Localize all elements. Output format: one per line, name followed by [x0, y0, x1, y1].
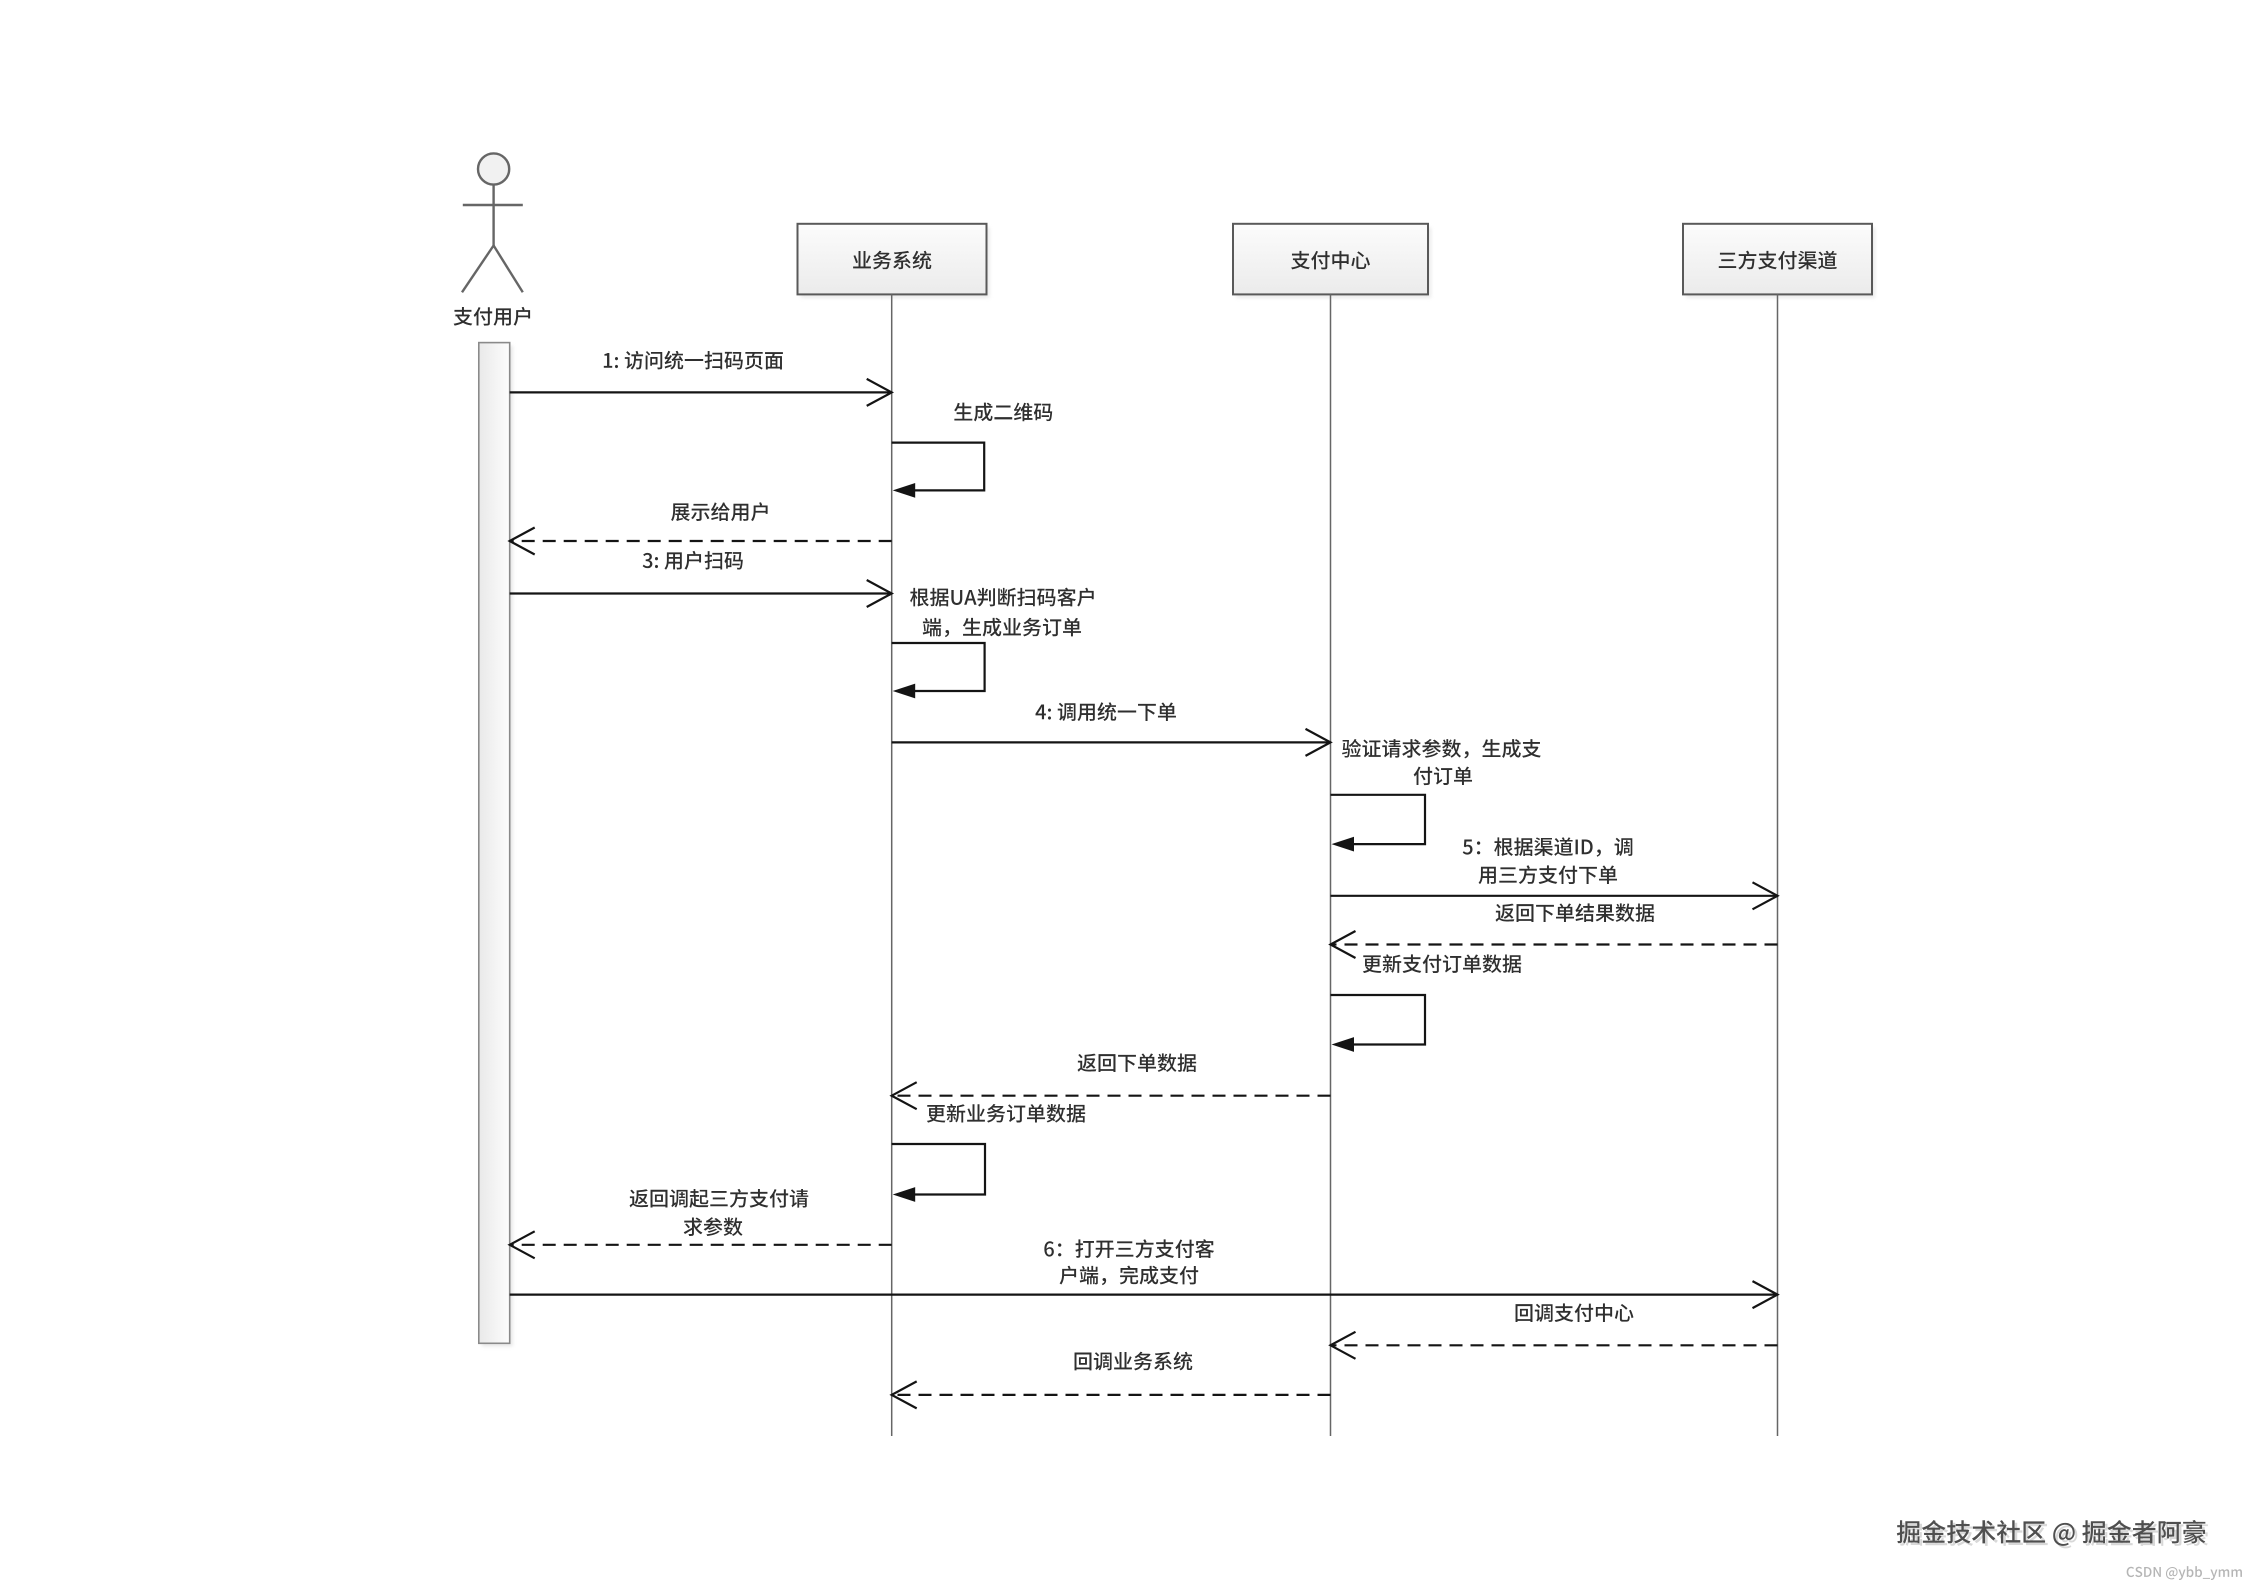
- label: 返回下单数据: [1078, 1053, 1197, 1072]
- actor label: 支付用户: [454, 307, 530, 326]
- self message loop: 根据UA判断扫码客户端，生成业务订单: [892, 643, 985, 698]
- return message (dashed): 展示给用户: [510, 528, 892, 555]
- label: 返回下单结果数据: [1496, 903, 1655, 922]
- self message loop: 更新支付订单数据: [1331, 995, 1426, 1052]
- return message (dashed): 回调支付中心: [1331, 1332, 1778, 1359]
- box label: 支付中心: [1291, 251, 1370, 270]
- label: 回调业务系统: [1075, 1352, 1193, 1371]
- participant box: 业务系统 (business system): [798, 224, 990, 298]
- return message (dashed): 返回调起三方支付请求参数: [510, 1231, 892, 1258]
- label: 更新支付订单数据: [1363, 954, 1521, 973]
- label: 5：根据渠道ID，调用三方支付下单: [1463, 837, 1633, 856]
- self message loop: 生成二维码 (generate QR code): [892, 443, 985, 498]
- box label: 业务系统: [853, 251, 931, 270]
- label: 6：打开三方支付客户端，完成支付: [1044, 1239, 1214, 1258]
- watermark: 掘金技术社区 @ 掘金者阿豪: [1897, 1520, 2208, 1548]
- label: 返回调起三方支付请求参数: [630, 1189, 809, 1208]
- message arrow: 6：打开三方支付客户端，完成支付: [510, 1281, 1778, 1308]
- label: 3: 用户扫码: [643, 551, 743, 570]
- return message (dashed): 返回下单数据: [892, 1082, 1331, 1109]
- message arrow: 5：根据渠道ID，调用三方支付下单: [1331, 882, 1778, 909]
- participant box: 支付中心 (payment center): [1233, 224, 1431, 298]
- return message (dashed): 回调业务系统: [892, 1381, 1331, 1408]
- label: 1: 访问统一扫码页面: [604, 351, 783, 370]
- label: 生成二维码: [954, 403, 1052, 422]
- lifeline: 支付中心: [1330, 294, 1332, 1436]
- message arrow: 4: 调用统一下单: [892, 729, 1331, 756]
- label: 展示给用户: [671, 502, 768, 521]
- return message (dashed): 返回下单结果数据: [1331, 931, 1778, 958]
- watermark: CSDN @ybb_ymm: [2127, 1566, 2242, 1580]
- self message loop: 更新业务订单数据: [892, 1144, 985, 1202]
- label: 验证请求参数，生成支付订单: [1342, 739, 1541, 758]
- activation bar: 支付用户 lifeline activation: [479, 343, 513, 1347]
- self message loop: 验证请求参数，生成支付订单: [1331, 795, 1426, 852]
- label: 更新业务订单数据: [927, 1104, 1085, 1123]
- lifeline: 三方支付渠道: [1777, 294, 1779, 1436]
- actor stick figure: 支付用户 (paying user): [462, 153, 523, 292]
- label: 回调支付中心: [1516, 1303, 1634, 1322]
- label: 根据UA判断扫码客户端，生成业务订单: [910, 588, 1094, 607]
- message arrow: 1: 访问统一扫码页面: [510, 379, 892, 406]
- lifeline: 业务系统: [891, 294, 893, 1436]
- box label: 三方支付渠道: [1719, 251, 1837, 270]
- participant box: 三方支付渠道 (3rd-party payment channel): [1683, 224, 1875, 298]
- message arrow: 3: 用户扫码: [510, 580, 892, 607]
- label: 4: 调用统一下单: [1036, 702, 1176, 721]
